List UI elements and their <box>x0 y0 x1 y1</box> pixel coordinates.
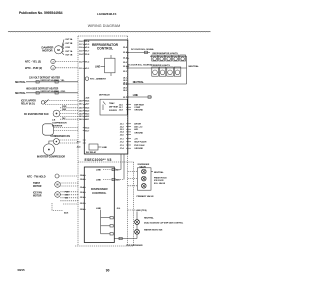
defrost relay K3 on board <box>99 93 127 115</box>
svg-text:Publication No. 5995544984: Publication No. 5995544984 <box>19 11 63 15</box>
svg-text:J4-5: J4-5 <box>79 109 83 112</box>
defrost heater wire neutral run <box>15 79 78 84</box>
svg-text:TRIAC: TRIAC <box>109 102 115 105</box>
neutral wire from control <box>128 81 187 84</box>
dispenser control board U2 <box>84 167 114 243</box>
cup dispenser label <box>126 234 143 247</box>
header model number <box>97 12 117 16</box>
cup dispenser gate solenoid <box>135 212 184 225</box>
connector J4 outside pin numbers <box>79 99 84 121</box>
dispenser bus branch pin 1 <box>101 217 114 219</box>
svg-text:WTC - PUR (2): WTC - PUR (2) <box>25 66 42 70</box>
svg-text:J4-5: J4-5 <box>116 178 120 181</box>
svg-text:NEUTRAL: NEUTRAL <box>189 65 200 68</box>
svg-text:M: M <box>57 194 59 197</box>
svg-text:J1-1: J1-1 <box>79 68 83 70</box>
svg-text:J-B: J-B <box>52 119 56 121</box>
ice fan wires dashed <box>60 192 78 201</box>
footer page number 90 <box>106 269 110 273</box>
water valve assembly solenoid coils <box>137 168 151 190</box>
aux ground wire dashed route <box>52 203 78 215</box>
svg-text:DC EVAPORATOR FAN: DC EVAPORATOR FAN <box>24 113 49 116</box>
svg-text:DEFROST HEATER - YEL: DEFROST HEATER - YEL <box>41 79 66 82</box>
svg-text:J8-3: J8-3 <box>123 83 127 85</box>
refrigerator lights label <box>153 52 179 55</box>
freezer lights lamp row <box>150 67 187 76</box>
line wire from control <box>128 94 152 98</box>
svg-text:NTC - AMBIENT: NTC - AMBIENT <box>90 78 107 81</box>
svg-text:DC DOOR SOL. SOURCE: DC DOOR SOL. SOURCE <box>128 65 153 67</box>
svg-text:90: 90 <box>106 269 110 273</box>
triac output wire labels <box>134 103 144 111</box>
svg-text:LINE: LINE <box>96 169 101 171</box>
wire to cup dispenser <box>114 237 137 239</box>
lights neutral bus label <box>189 65 200 68</box>
cabinet boundary dashed left vertical <box>77 36 79 246</box>
svg-text:LINE: LINE <box>133 94 139 97</box>
thermistor NTC yellow <box>25 59 78 63</box>
compressor motor <box>37 141 65 159</box>
svg-text:SOL. VALVE: SOL. VALVE <box>154 182 166 185</box>
svg-text:LINE: LINE <box>95 66 101 68</box>
svg-text:J1-2: J1-2 <box>79 62 83 64</box>
svg-text:MOTOR: MOTOR <box>42 49 52 53</box>
board version label ESEC3000 V8 <box>85 158 112 162</box>
dispenser J2 pin labels left <box>80 175 85 211</box>
cabinet boundary dashed right vertical <box>127 36 129 246</box>
svg-text:COM: COM <box>65 47 70 49</box>
svg-text:08/15: 08/15 <box>18 268 25 272</box>
svg-text:J4-3: J4-3 <box>79 115 83 118</box>
inverter relay K4 on board <box>86 144 107 154</box>
svg-text:J1-5: J1-5 <box>79 51 83 53</box>
water valve coil feed wires <box>128 172 153 186</box>
svg-text:120 VOLT DEFROST HEATER: 120 VOLT DEFROST HEATER <box>29 76 60 79</box>
line relay K2 inside control <box>95 55 115 76</box>
svg-text:LINE: LINE <box>96 179 101 181</box>
svg-text:AUX: AUX <box>64 212 69 215</box>
damper winding labels OUT2A OUT2B COM OUT1A OUT1B <box>65 38 73 56</box>
svg-text:MOTOR: MOTOR <box>33 196 42 198</box>
svg-text:DC DOOR SOL. SIGNAL: DC DOOR SOL. SIGNAL <box>131 48 155 51</box>
inverter wires dashed <box>54 128 79 131</box>
freezer lights feed wire <box>128 67 150 69</box>
dispenser line pin J4-7 <box>96 154 121 171</box>
compressor inverter module <box>43 124 54 135</box>
primary valve label <box>137 195 155 198</box>
page title WIRING DIAGRAM <box>88 24 121 28</box>
dispenser bus branch pin 2 <box>101 225 114 227</box>
DC evaporator fan motor M2 <box>24 110 60 117</box>
perforation tear line <box>8 30 211 33</box>
connector J2 pin labels right edge <box>123 46 128 99</box>
svg-text:DEF HEAT: DEF HEAT <box>134 103 144 106</box>
svg-text:J4-7: J4-7 <box>79 103 83 106</box>
dispenser line pin J4-5 <box>96 154 124 181</box>
svg-text:GROUND: GROUND <box>134 148 143 150</box>
dispenser board left edge pin stubs <box>83 175 86 209</box>
svg-text:INVERTER COMPRESSOR: INVERTER COMPRESSOR <box>37 157 65 159</box>
svg-text:J1-8: J1-8 <box>79 41 83 43</box>
fresh food ice door solenoid label <box>154 177 167 184</box>
thermistor WTC purple <box>25 66 78 70</box>
air door connector stubs <box>126 124 131 135</box>
compressor inverter label <box>52 119 67 127</box>
svg-text:OUT 1B: OUT 1B <box>65 55 73 57</box>
svg-text:WATER MICRO SW.: WATER MICRO SW. <box>144 228 163 231</box>
svg-text:ICE DOOR: ICE DOOR <box>154 180 164 182</box>
svg-text:FRESH FOOD: FRESH FOOD <box>154 177 167 179</box>
svg-text:PUR 1 BLK: PUR 1 BLK <box>134 145 145 147</box>
svg-text:CUP DISPENSER: CUP DISPENSER <box>126 245 143 247</box>
safety heater section label <box>26 88 59 91</box>
connector J8 pin labels right edge <box>123 77 127 92</box>
control board left edge pin stubs <box>83 41 86 143</box>
defrost heater section label <box>29 76 60 79</box>
condenser fan motor M3 <box>51 135 79 144</box>
freezer lights label <box>152 65 171 67</box>
svg-text:LINE: LINE <box>102 147 107 149</box>
svg-text:LGUB2642LF4: LGUB2642LF4 <box>97 12 117 16</box>
svg-text:J4-7: J4-7 <box>116 168 120 171</box>
svg-text:OUT 1A: OUT 1A <box>65 50 73 53</box>
svg-text:DEF HEAT: DEF HEAT <box>109 106 119 109</box>
ice fan motor M5 <box>33 192 60 198</box>
svg-text:TWIST: TWIST <box>33 183 41 185</box>
freezer door dashed divider <box>133 162 135 246</box>
svg-text:SOURCE: SOURCE <box>109 110 118 112</box>
svg-text:M: M <box>57 184 59 187</box>
svg-text:DEF RELAY: DEF RELAY <box>99 93 110 96</box>
svg-text:COMPRESSOR: COMPRESSOR <box>52 123 67 125</box>
freezer section dashed top <box>78 161 134 163</box>
svg-text:SELF FLASH: SELF FLASH <box>134 141 147 144</box>
safety heater wire neutral run <box>15 90 78 95</box>
svg-text:J1-7: J1-7 <box>79 44 83 46</box>
svg-text:J4-2: J4-2 <box>79 118 83 121</box>
triac output wires <box>126 105 131 110</box>
svg-text:NEUTRAL: NEUTRAL <box>144 216 154 219</box>
thermistor NTC ambient on board <box>85 77 106 81</box>
svg-text:NEUTRAL: NEUTRAL <box>15 81 26 84</box>
svg-text:CONTROL: CONTROL <box>92 191 107 195</box>
svg-text:NEUTRAL: NEUTRAL <box>15 92 26 95</box>
display connector pin labels <box>120 138 125 150</box>
damper motor wires fanning to pins <box>62 39 64 54</box>
triac output pin labels and stubs <box>119 104 124 111</box>
svg-text:LINE: LINE <box>96 208 101 210</box>
display connector wire labels <box>134 138 147 150</box>
cabinet boundary dashed top horizontal <box>78 35 128 37</box>
svg-text:NEUTRAL: NEUTRAL <box>154 171 164 174</box>
control board right edge pin stubs <box>126 52 129 97</box>
thermistor NTC TW HOLD <box>27 174 78 178</box>
connector J1 outside pin numbers <box>79 41 84 70</box>
freezer section dashed bottom <box>75 245 134 247</box>
ice fan wire labels PWR GND TAC <box>65 192 70 200</box>
connector J3 pin labels <box>85 127 90 132</box>
svg-text:DEFROST HEATER - ORG: DEFROST HEATER - ORG <box>41 90 66 93</box>
svg-text:J2-6: J2-6 <box>117 208 121 210</box>
svg-text:OUT 2A: OUT 2A <box>65 38 73 41</box>
svg-text:NTC - TW HOLD: NTC - TW HOLD <box>27 175 46 178</box>
ice flapper relay K1 <box>21 100 78 106</box>
evaporator fan wire labels <box>62 106 67 120</box>
lights neutral bus wire <box>186 56 188 84</box>
refrigerator lights lamp row <box>150 55 187 61</box>
connector J5 pin labels <box>77 142 82 149</box>
line TP4 wire <box>128 209 147 212</box>
svg-text:ICE FLAPPER: ICE FLAPPER <box>21 100 36 103</box>
svg-text:ICE FAN: ICE FAN <box>33 192 42 195</box>
dispenser water valve label <box>138 164 150 169</box>
svg-text:GROUND: GROUND <box>134 132 143 134</box>
twist tray motor M4 <box>33 182 78 188</box>
air door wire labels <box>134 123 143 135</box>
svg-text:LINE (TP4): LINE (TP4) <box>136 209 147 212</box>
svg-text:J1-6: J1-6 <box>79 47 83 49</box>
svg-text:ADC +12: ADC +12 <box>134 125 143 128</box>
DC door solenoid source wire <box>128 65 153 67</box>
svg-text:INV RELAY: INV RELAY <box>86 151 97 154</box>
display connector stubs <box>126 139 131 149</box>
svg-text:ESEC3000** V8: ESEC3000** V8 <box>85 158 112 162</box>
connector J4 pin labels left edge middle <box>85 97 90 121</box>
footer date 08/15 <box>18 268 25 272</box>
svg-text:CONTROL: CONTROL <box>97 47 113 51</box>
svg-text:PRIMARY VALVE: PRIMARY VALVE <box>137 195 155 198</box>
connector J1 pin labels left edge top <box>85 40 90 70</box>
water micro switch S2 <box>135 224 164 234</box>
svg-text:GROUND: GROUND <box>134 110 143 112</box>
header publication number <box>19 11 63 15</box>
air door connector pin labels <box>120 124 125 137</box>
svg-text:NEUTRAL: NEUTRAL <box>133 81 145 84</box>
svg-text:J4-8: J4-8 <box>79 99 83 102</box>
svg-text:AIR DR: AIR DR <box>134 123 141 126</box>
svg-text:RELAY (N.O.): RELAY (N.O.) <box>21 103 35 106</box>
damper motor M1 <box>42 46 63 54</box>
svg-text:WIRING DIAGRAM: WIRING DIAGRAM <box>88 24 121 28</box>
svg-text:J4-6: J4-6 <box>79 107 83 110</box>
dispenser bus branch pin 3 <box>101 233 114 235</box>
DC door solenoid signal wire <box>128 48 155 53</box>
refrigerator control board U1 <box>84 40 128 154</box>
svg-text:J8-6: J8-6 <box>123 90 127 92</box>
water valve neutral label <box>154 171 164 174</box>
svg-text:CONDENSER FAN: CONDENSER FAN <box>51 135 71 138</box>
svg-text:OUT 2B: OUT 2B <box>65 43 73 45</box>
svg-text:DUAL SOLENOID CUP DISP GATE C: DUAL SOLENOID CUP DISP GATE CONTROL <box>144 221 184 224</box>
evaporator fan wires dashed <box>60 108 78 119</box>
svg-text:MOTOR: MOTOR <box>33 186 42 188</box>
dispenser internal line bus <box>96 208 120 234</box>
svg-text:NTC - YEL (2): NTC - YEL (2) <box>25 60 41 64</box>
